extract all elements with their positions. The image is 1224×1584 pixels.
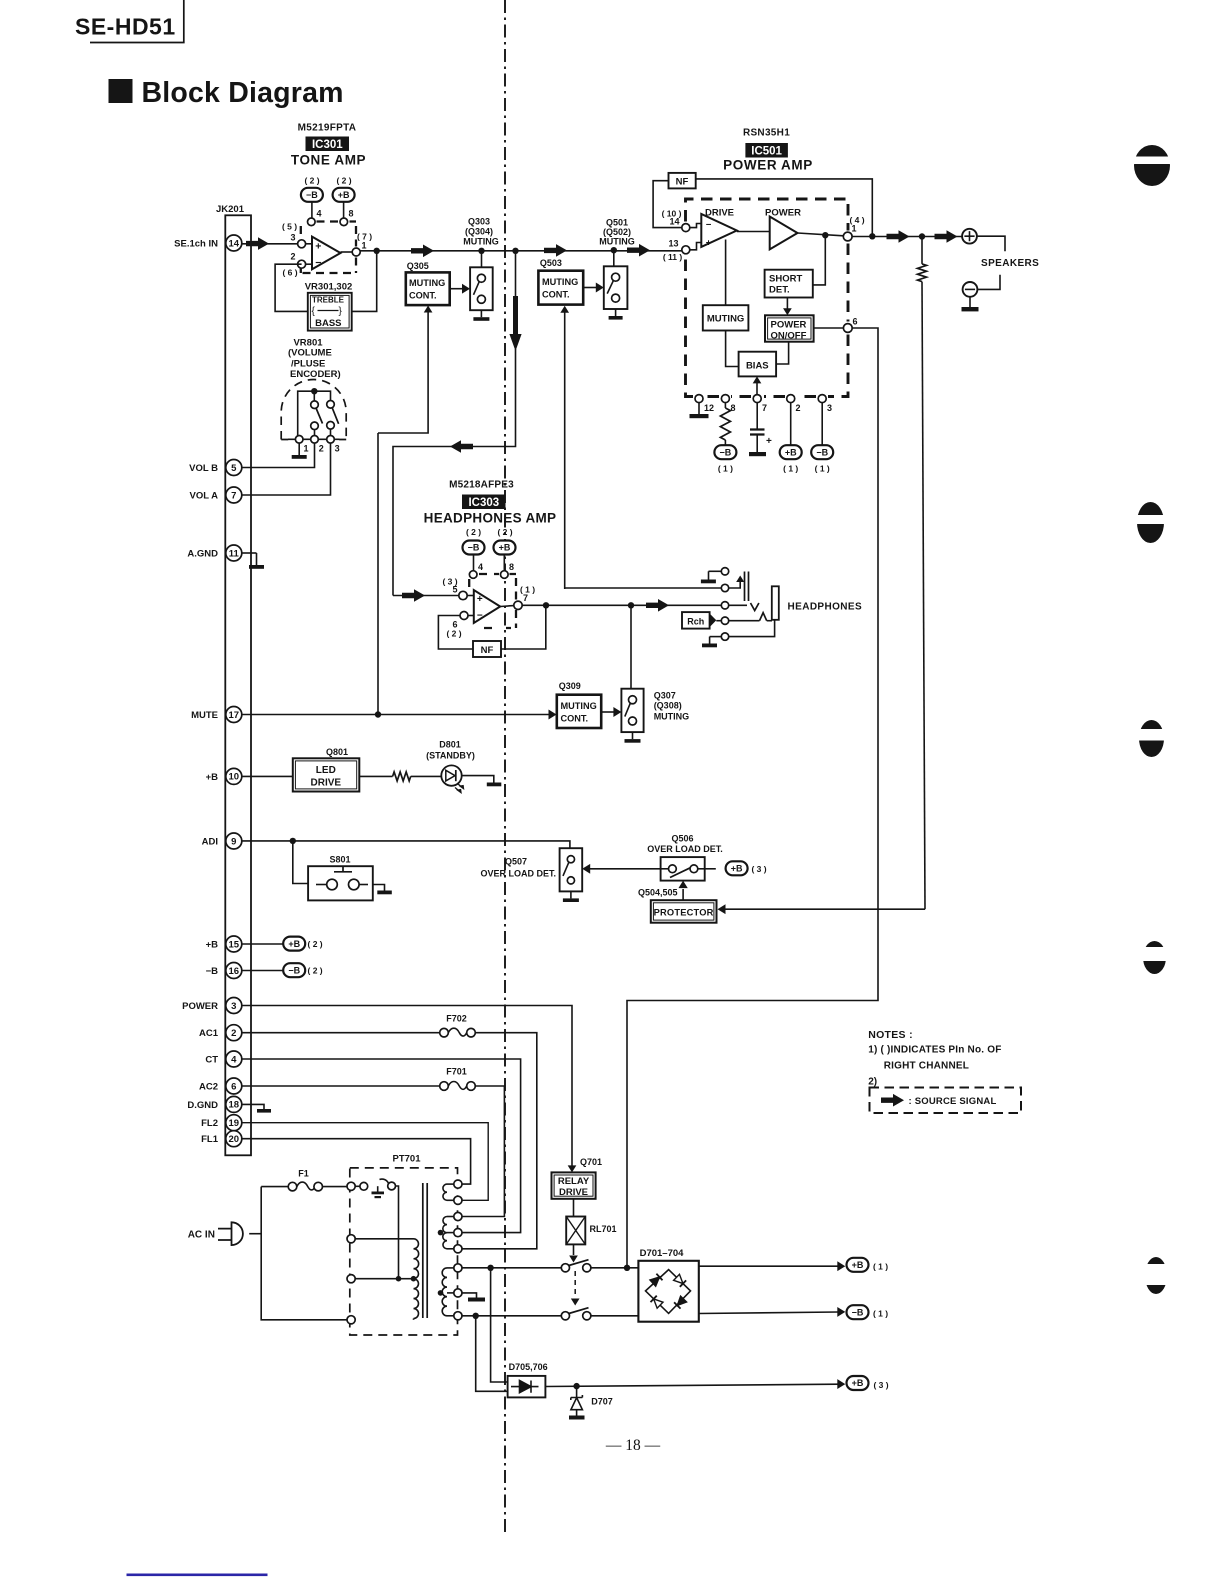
wire CT line xyxy=(242,1059,521,1233)
svg-text:14: 14 xyxy=(229,238,240,249)
legend source signal arrow xyxy=(881,1094,904,1107)
IC501 pin 2 xyxy=(787,395,795,403)
arrow RL701 to contact xyxy=(573,1244,575,1255)
wire contact 5 to body xyxy=(729,620,775,637)
svg-text:−: − xyxy=(477,611,483,622)
damping resistor xyxy=(921,237,923,264)
wire contact 2 switch arm xyxy=(729,581,741,588)
svg-text:MUTING: MUTING xyxy=(654,712,690,722)
PT701 primary pin 4 xyxy=(347,1316,355,1324)
IC301 dashed outline xyxy=(301,222,356,274)
connector pin 11 (A.GND) xyxy=(187,545,241,561)
svg-text:M5219FPTA: M5219FPTA xyxy=(298,123,357,134)
svg-text:(Q502): (Q502) xyxy=(603,227,631,237)
wire muting to bias xyxy=(726,331,739,367)
supply pill +B (1) xyxy=(847,1258,869,1272)
VR801 pin 3 xyxy=(327,436,335,444)
node D705 branch xyxy=(487,1265,493,1271)
resistor at pin 8 xyxy=(724,403,726,408)
speaker bracket bottom xyxy=(977,275,1000,290)
muting switch Q501 xyxy=(604,266,628,309)
svg-text:( 2 ): ( 2 ) xyxy=(308,966,323,976)
wire relay contact 2 to bridge xyxy=(591,1315,639,1317)
wire -B pill to pin 4 (IC303) xyxy=(473,555,475,571)
svg-text:5: 5 xyxy=(231,463,237,474)
svg-text:+: + xyxy=(315,240,321,252)
svg-text:DET.: DET. xyxy=(769,285,790,296)
wire VR801 pin3 to VOL A xyxy=(242,443,331,495)
thick arrow into headphones amp xyxy=(402,589,425,602)
svg-text:−B: −B xyxy=(288,965,300,975)
svg-text:3: 3 xyxy=(231,1001,236,1012)
wire pin3 to op-amp xyxy=(306,243,312,245)
svg-text:6: 6 xyxy=(231,1081,236,1092)
svg-text:( 2 ): ( 2 ) xyxy=(497,527,512,537)
svg-text:FL1: FL1 xyxy=(201,1134,219,1145)
node relay supply junction xyxy=(624,1265,630,1271)
switch S801 box xyxy=(308,866,373,900)
PT701 secondary pin 1 xyxy=(454,1180,462,1188)
wire AC1 to fuse F702 xyxy=(242,1032,440,1034)
connector pin 20 (FL1) xyxy=(201,1131,242,1147)
svg-text:4: 4 xyxy=(317,209,322,219)
svg-text:RELAY: RELAY xyxy=(558,1176,590,1187)
title box rule xyxy=(90,0,184,43)
wire tap to coil xyxy=(399,1278,414,1280)
svg-text:13: 13 xyxy=(668,238,678,248)
wire link to winding tap xyxy=(355,1186,398,1279)
supply pill -B pin8 xyxy=(714,445,736,459)
wire NF to output node xyxy=(696,179,873,236)
op-amp U301 triangle xyxy=(312,237,341,270)
svg-text:−B: −B xyxy=(720,447,732,457)
node VR801 common xyxy=(311,388,317,394)
wire pin13 to drive xyxy=(690,243,702,250)
wire +B pill to pin 8 (IC303) xyxy=(503,555,505,571)
svg-text:TONE AMP: TONE AMP xyxy=(291,153,366,168)
relay coil RL701 xyxy=(566,1217,585,1245)
IC301 pin 4 xyxy=(308,218,316,226)
bridge rectifier D701-704 xyxy=(638,1261,698,1322)
VR801 wiper contact A xyxy=(311,401,319,409)
svg-text:( 1 ): ( 1 ) xyxy=(718,464,733,474)
svg-text:2: 2 xyxy=(290,252,295,262)
svg-text:( 11 ): ( 11 ) xyxy=(663,252,683,262)
svg-text:7: 7 xyxy=(231,490,236,501)
svg-text:ON/OFF: ON/OFF xyxy=(771,330,807,341)
VR801 pin dashes xyxy=(288,438,340,440)
LED drive box xyxy=(293,758,360,791)
wire LED drive to resistor xyxy=(359,775,392,777)
thick arrow after IC301 xyxy=(411,245,434,258)
svg-text:RL701: RL701 xyxy=(590,1224,617,1234)
node Q501 branch xyxy=(611,247,617,253)
PT701 secondary pin 2 xyxy=(454,1196,462,1204)
wire primary top link xyxy=(355,1185,360,1187)
feedback box NF (IC303) xyxy=(473,641,501,657)
wire jack contact 5 ground xyxy=(710,636,722,638)
wire VR801 pin2 to VOL B xyxy=(242,443,315,467)
PT701 secondary pin 5 xyxy=(454,1245,462,1253)
primary winding lower xyxy=(414,1279,419,1319)
wire power on/off to pin 6 xyxy=(814,327,844,329)
bias box xyxy=(739,352,777,377)
svg-text:+B: +B xyxy=(206,772,219,783)
wire primary pin 2 to coil xyxy=(355,1238,413,1240)
IC303 dashed outline xyxy=(469,574,516,628)
svg-text:Q501: Q501 xyxy=(606,218,628,228)
svg-text:IC501: IC501 xyxy=(751,146,782,158)
svg-text:CONT.: CONT. xyxy=(409,291,437,301)
svg-text:TREBLE: TREBLE xyxy=(312,296,345,305)
svg-text:ADI: ADI xyxy=(202,837,218,848)
wire headphone jack detect to Q503 xyxy=(564,311,566,589)
protector box xyxy=(651,900,717,923)
wire Q506 to Q507 xyxy=(589,868,661,870)
IC303 pin 6 xyxy=(460,612,468,620)
jack contact 5 xyxy=(721,633,728,640)
secondary winding 3 xyxy=(442,1268,447,1316)
svg-text:D701–704: D701–704 xyxy=(640,1248,685,1259)
svg-text:( 1 ): ( 1 ) xyxy=(873,1309,888,1319)
capacitor at pin 7 xyxy=(756,403,758,429)
overload switch Q507 xyxy=(560,848,583,891)
zener D707 xyxy=(576,1386,578,1397)
svg-text:AC1: AC1 xyxy=(199,1028,219,1039)
relay drive box xyxy=(552,1172,596,1198)
svg-text:−B: −B xyxy=(468,543,480,553)
jack body bracket xyxy=(772,586,779,620)
wire pin5 to op-amp xyxy=(467,595,474,597)
svg-text:3: 3 xyxy=(827,403,832,413)
muting block (IC501) xyxy=(703,305,749,330)
svg-text:+: + xyxy=(477,594,483,605)
svg-text:7: 7 xyxy=(762,403,767,413)
svg-text:5: 5 xyxy=(452,585,457,595)
wire lower B to pin 3 xyxy=(330,429,332,435)
wire NF to output (IC303) xyxy=(501,605,546,649)
node D706 branch xyxy=(473,1313,479,1319)
connector pin 6 (AC2) xyxy=(199,1078,242,1094)
svg-text:MUTING: MUTING xyxy=(542,277,578,287)
heading bullet square xyxy=(109,79,133,103)
svg-text:( 2 ): ( 2 ) xyxy=(308,939,323,949)
svg-text:JK201: JK201 xyxy=(216,204,245,215)
svg-text:S801: S801 xyxy=(329,855,350,865)
wire transformer to relay contact 1 xyxy=(462,1267,561,1269)
connector pin 14 (SE.1ch IN) xyxy=(174,235,242,251)
svg-text:( 3 ): ( 3 ) xyxy=(873,1380,888,1390)
svg-text:2: 2 xyxy=(231,1028,236,1039)
muting control Q503 box xyxy=(538,271,583,305)
IC301 pin 3 xyxy=(298,240,306,248)
PT701 secondary pin 4 xyxy=(454,1229,462,1237)
connector pin 7 (VOL A) xyxy=(189,487,241,503)
svg-text:−: − xyxy=(315,257,321,269)
connector JK201 body xyxy=(225,215,251,1155)
connector pin 17 (MUTE) xyxy=(191,707,242,723)
svg-text:(Q304): (Q304) xyxy=(465,227,493,237)
PT701 secondary pin 7 xyxy=(454,1289,462,1297)
connector pin 4 (CT) xyxy=(205,1051,241,1067)
VR801 common bar xyxy=(298,391,331,439)
svg-text:Q506: Q506 xyxy=(671,834,693,844)
connector pin 10 (+B) xyxy=(206,768,242,784)
supply pill -B (IC301 pin4) xyxy=(301,188,323,202)
svg-text:Q504,505: Q504,505 xyxy=(638,888,678,898)
VR801 lower contact B xyxy=(327,422,335,430)
supply pill -B IC303 xyxy=(463,541,485,555)
svg-text:−B: −B xyxy=(852,1307,864,1317)
svg-text:+B: +B xyxy=(288,939,300,949)
wire Rch to contact 4 xyxy=(716,620,721,622)
relay linkage dashed xyxy=(574,1271,576,1296)
wire FL2 line xyxy=(242,1123,488,1201)
IC501 designator plate xyxy=(745,143,788,158)
thick arrow left headphone feed xyxy=(450,440,473,453)
IC301 pin 8 xyxy=(340,218,348,226)
supply pill +B (3) overload xyxy=(726,861,748,875)
jack contact 2 xyxy=(721,584,728,591)
svg-text:SE-HD51: SE-HD51 xyxy=(75,14,176,40)
wire transformer to relay contact 2 xyxy=(462,1315,561,1317)
svg-text:RSN35H1: RSN35H1 xyxy=(743,128,790,139)
muting control Q305 box xyxy=(406,272,450,305)
node MUTE branch xyxy=(375,711,381,717)
ground VR801 pin1 xyxy=(298,443,300,455)
wire F701 to transformer xyxy=(462,1086,504,1217)
connector pin 16 (&#8722;B) xyxy=(206,963,242,979)
VR801 pin 1 xyxy=(295,436,303,444)
svg-text:15: 15 xyxy=(229,939,240,950)
svg-text:8: 8 xyxy=(731,403,736,413)
wire jack detect contact 2 xyxy=(565,587,722,589)
headphone output line xyxy=(522,604,721,606)
wire D705 output to +B(3) xyxy=(545,1384,838,1386)
wire Q506 to +B pill xyxy=(705,868,716,870)
svg-text:D707: D707 xyxy=(591,1397,613,1407)
ground speaker minus xyxy=(969,297,971,307)
registration mark 1 xyxy=(1130,145,1174,186)
registration mark 3 xyxy=(1135,720,1169,757)
wire LED to ground xyxy=(462,776,494,783)
op-amp U303 triangle xyxy=(474,590,500,623)
svg-text:IC303: IC303 xyxy=(468,497,499,509)
svg-text:+B: +B xyxy=(731,864,743,874)
wire drive to power xyxy=(737,231,770,233)
channel divider dash-dot line xyxy=(504,0,506,1532)
svg-text:VR301,302: VR301,302 xyxy=(305,282,353,293)
svg-text:11: 11 xyxy=(229,548,240,559)
svg-text:16: 16 xyxy=(229,966,240,977)
svg-text:Q701: Q701 xyxy=(580,1157,602,1167)
supply pill -B (2) xyxy=(283,963,305,977)
connector pin 3 (POWER) xyxy=(182,998,242,1014)
resistor R801 xyxy=(393,772,411,781)
svg-text:+B: +B xyxy=(206,940,219,951)
thick arrow into IC501 xyxy=(627,244,650,257)
wire pin14 to drive xyxy=(690,224,702,228)
IC501 dashed outline xyxy=(686,199,849,397)
node damping resistor xyxy=(919,233,925,239)
svg-text:MUTE: MUTE xyxy=(191,710,218,721)
svg-text:SHORT: SHORT xyxy=(769,274,802,285)
wire contact 3 to tip xyxy=(729,604,747,606)
svg-text:POWER: POWER xyxy=(771,319,807,330)
svg-text:(STANDBY): (STANDBY) xyxy=(426,751,475,761)
svg-text:12: 12 xyxy=(704,403,714,413)
speaker output line xyxy=(852,236,962,238)
jack tip lines xyxy=(745,572,749,602)
svg-text:CONT.: CONT. xyxy=(542,290,570,300)
svg-text:( 2 ): ( 2 ) xyxy=(304,176,319,186)
svg-text:1) ( )INDICATES PIn No. OF: 1) ( )INDICATES PIn No. OF xyxy=(868,1045,1001,1056)
secondary winding 2 xyxy=(443,1217,447,1249)
svg-text:NF: NF xyxy=(481,645,494,656)
svg-text:+B: +B xyxy=(338,190,350,200)
connector pin 2 (AC1) xyxy=(199,1025,242,1041)
speaker terminal plus xyxy=(962,229,977,244)
svg-text:1: 1 xyxy=(362,241,367,251)
svg-text:POWER AMP: POWER AMP xyxy=(723,158,813,173)
svg-text:F702: F702 xyxy=(446,1014,467,1024)
svg-text:FL2: FL2 xyxy=(201,1118,218,1129)
connector pin 19 (FL2) xyxy=(201,1115,242,1131)
svg-text:Q503: Q503 xyxy=(540,258,562,268)
svg-text:HEADPHONES AMP: HEADPHONES AMP xyxy=(424,511,557,526)
PT701 secondary pin 6 xyxy=(454,1264,462,1272)
ground D.GND xyxy=(242,1104,264,1109)
svg-text:Q507: Q507 xyxy=(505,857,527,867)
svg-text:PROTECTOR: PROTECTOR xyxy=(654,908,714,918)
main signal line IC301 to IC501 xyxy=(360,250,681,252)
relay contact 1 xyxy=(561,1264,569,1272)
node output junction IC301 xyxy=(374,248,380,254)
wire AC plug to circuit xyxy=(249,1233,261,1235)
svg-text:AC IN: AC IN xyxy=(188,1230,215,1241)
svg-text:CONT.: CONT. xyxy=(561,714,589,724)
arrow protector to Q506 xyxy=(682,889,684,900)
svg-text:D705,706: D705,706 xyxy=(509,1362,548,1372)
wire short det tap xyxy=(813,235,826,285)
ground Q307 xyxy=(632,732,634,739)
wire S801 to ground xyxy=(373,885,385,891)
feedback wire pin6 to NF xyxy=(438,616,473,650)
PT701 primary pin 1 xyxy=(347,1182,355,1190)
connector pin 9 (ADI) xyxy=(202,833,242,849)
svg-text:4: 4 xyxy=(231,1054,237,1065)
PT701 primary pin 3 xyxy=(347,1275,355,1283)
svg-text:2: 2 xyxy=(796,403,801,413)
IC501 pin 3 xyxy=(818,395,826,403)
svg-text:RIGHT CHANNEL: RIGHT CHANNEL xyxy=(884,1060,969,1071)
IC303 pin 4 xyxy=(469,571,477,579)
wire winding to D705 xyxy=(491,1268,508,1382)
ground Q507 xyxy=(570,891,572,898)
wire pin6 to op-amp xyxy=(468,615,474,617)
PT701 primary pin 2 xyxy=(347,1235,355,1243)
svg-text:−B: −B xyxy=(816,447,828,457)
arrow pin7 to bias xyxy=(756,383,758,394)
svg-text:F701: F701 xyxy=(446,1067,467,1077)
wire to protector xyxy=(724,908,925,910)
ground jack contact 1 xyxy=(708,571,710,579)
svg-text:14: 14 xyxy=(669,216,679,226)
overload detector Q506 box xyxy=(661,857,705,881)
short detector box xyxy=(765,270,813,298)
svg-text:−B: −B xyxy=(206,966,219,977)
svg-text:+B: +B xyxy=(852,1378,864,1388)
wire POWER line xyxy=(242,1006,572,1167)
arrow Q503 to Q501 switch xyxy=(583,287,597,289)
muting control Q309 box xyxy=(557,695,601,728)
AC plug xyxy=(232,1222,243,1245)
thick arrow to speakers 2 xyxy=(935,230,958,243)
IC301 pin 1 output xyxy=(352,248,360,256)
wire F702 to transformer xyxy=(462,1033,537,1249)
wire pin15 to +B pill xyxy=(242,943,284,945)
supply pill +B (IC301 pin8) xyxy=(333,188,355,202)
thick arrow before Q501 xyxy=(544,244,567,257)
svg-text:( 2 ): ( 2 ) xyxy=(446,629,461,639)
svg-text:CT: CT xyxy=(205,1055,218,1066)
IC501 pin 13 xyxy=(682,246,690,254)
svg-text:OVER LOAD DET.: OVER LOAD DET. xyxy=(647,844,723,854)
svg-text:HEADPHONES: HEADPHONES xyxy=(788,602,863,613)
node NF IC303 junction xyxy=(543,602,549,608)
svg-text:1: 1 xyxy=(304,444,309,454)
svg-text:PT701: PT701 xyxy=(393,1154,422,1165)
IC303 pin 7 xyxy=(514,601,522,609)
node D707 branch xyxy=(573,1383,579,1389)
node ADI branch xyxy=(290,838,296,844)
svg-text:MUTING: MUTING xyxy=(561,701,597,711)
ground Q303 xyxy=(480,310,482,317)
wire relay drive to RL701 xyxy=(573,1199,575,1217)
svg-text:MUTING: MUTING xyxy=(599,237,635,247)
wire main line into Q501 xyxy=(613,250,615,266)
secondary winding 1 xyxy=(443,1184,447,1200)
wire pin16 to -B pill xyxy=(242,970,284,972)
wire FL1 line xyxy=(242,1139,471,1184)
speaker terminal minus xyxy=(963,282,978,297)
ground A.GND xyxy=(242,552,257,554)
svg-text:DRIVE: DRIVE xyxy=(559,1187,588,1198)
svg-text:DRIVE: DRIVE xyxy=(311,778,342,789)
svg-text:( 1 ): ( 1 ) xyxy=(815,464,830,474)
VR801 lower contact A xyxy=(311,422,319,430)
svg-text:A.GND: A.GND xyxy=(187,549,218,560)
wire contact 4 ring xyxy=(729,620,760,622)
wire ADI to S801 xyxy=(293,841,308,884)
registration mark 4 xyxy=(1139,941,1171,974)
arrow short det to power on/off xyxy=(786,298,788,310)
wire resistor to LED xyxy=(411,775,442,777)
VR801 dashed enclosure xyxy=(281,380,346,440)
IC501 pin 1 xyxy=(843,232,852,241)
svg-text:7: 7 xyxy=(523,593,528,603)
svg-text:NOTES :: NOTES : xyxy=(868,1029,913,1041)
svg-text:F1: F1 xyxy=(298,1169,309,1179)
thick arrow down headphone feed xyxy=(509,296,521,351)
svg-text:( 5 ): ( 5 ) xyxy=(282,222,297,232)
power on/off box xyxy=(765,315,814,341)
registration mark 5 xyxy=(1141,1257,1172,1294)
fuse F701 xyxy=(440,1082,449,1091)
Rch source box xyxy=(682,612,710,629)
power amp triangle xyxy=(770,217,798,250)
node Q307 branch xyxy=(628,602,634,608)
